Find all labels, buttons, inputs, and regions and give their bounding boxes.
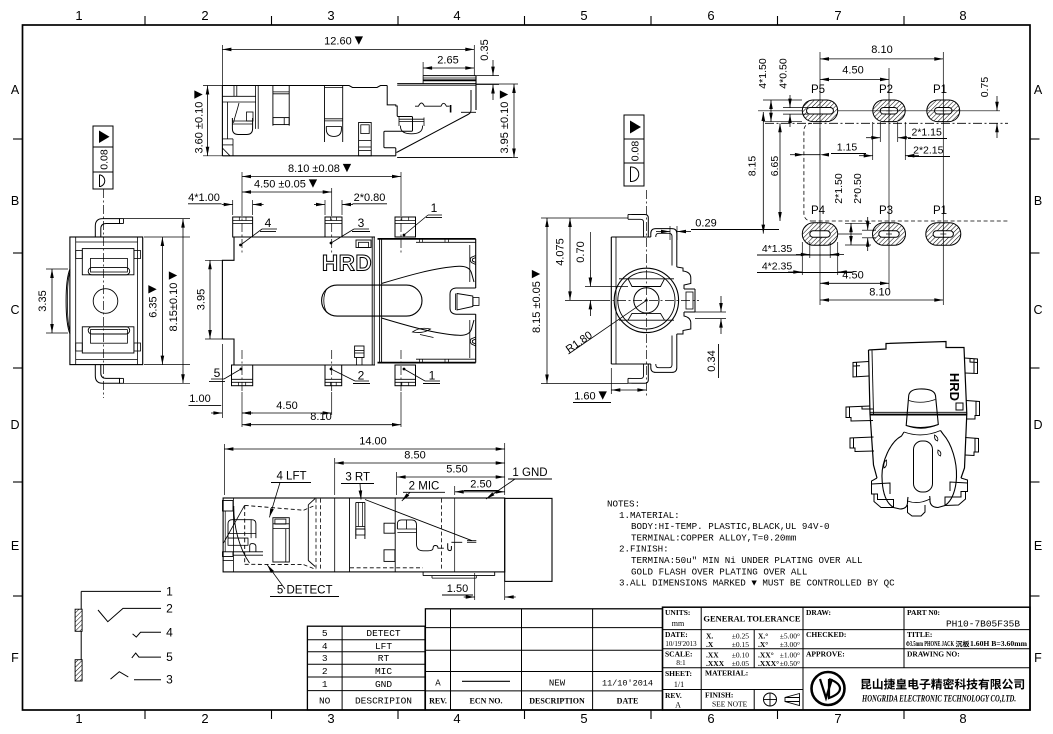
svg-text:4.50: 4.50 — [276, 400, 297, 412]
dim 2*1.15 / 2*2.15 — [879, 122, 881, 142]
svg-text:HRD: HRD — [322, 251, 372, 276]
svg-text:4.50: 4.50 — [842, 65, 863, 77]
svg-text:6: 6 — [707, 8, 714, 23]
top view spring arm — [415, 103, 450, 106]
svg-text:3: 3 — [166, 673, 173, 687]
svg-text:TERMINA:50u″ MIN Ni UNDER PLAT: TERMINA:50u″ MIN Ni UNDER PLATING OVER A… — [631, 555, 863, 566]
svg-text:E: E — [11, 539, 19, 553]
svg-text:FINISH:: FINISH: — [705, 691, 733, 700]
svg-text:A: A — [11, 83, 20, 97]
svg-text:3 RT: 3 RT — [345, 472, 370, 484]
svg-text:DATE:: DATE: — [665, 630, 688, 639]
svg-text:3.95 ±0.10▼: 3.95 ±0.10▼ — [496, 87, 512, 153]
3D bell — [882, 432, 908, 509]
revision table — [425, 609, 662, 710]
top view center slot terminal — [359, 123, 372, 156]
svg-text:0.70: 0.70 — [575, 241, 587, 262]
svg-text:8: 8 — [959, 711, 966, 726]
left view circle — [93, 289, 118, 314]
svg-text:2.65: 2.65 — [437, 55, 458, 67]
pad 4 — [233, 217, 253, 237]
svg-text:E: E — [1034, 539, 1042, 553]
svg-text:1: 1 — [166, 585, 173, 599]
svg-text:.X°: .X° — [758, 640, 768, 649]
svg-text:7: 7 — [834, 711, 841, 726]
svg-text:DESCRIPTION: DESCRIPTION — [529, 697, 585, 706]
svg-text:DETECT: DETECT — [366, 628, 401, 639]
svg-text:3.95: 3.95 — [196, 289, 208, 310]
svg-text:2: 2 — [358, 369, 365, 383]
svg-text:BODY:HI-TEMP. PLASTIC,BLACK,UL: BODY:HI-TEMP. PLASTIC,BLACK,UL 94V-0 — [631, 521, 829, 532]
svg-text:2 MIC: 2 MIC — [409, 480, 440, 492]
3D view body — [869, 342, 967, 479]
svg-text:8.10 ±0.08▼: 8.10 ±0.08▼ — [288, 160, 354, 176]
svg-text:5 DETECT: 5 DETECT — [277, 585, 333, 597]
top view diagonal cut — [397, 90, 472, 153]
bottom view leaf detail — [413, 328, 434, 337]
svg-text:8.15±0.10▼: 8.15±0.10▼ — [165, 268, 181, 331]
dimension 1.60 — [610, 368, 612, 394]
circle view circles — [614, 268, 678, 332]
finish symbols — [764, 693, 777, 706]
svg-text:3: 3 — [327, 711, 334, 726]
PCB pad P5 — [802, 100, 837, 122]
svg-text:14.00: 14.00 — [359, 436, 387, 448]
svg-text:0.29: 0.29 — [695, 218, 716, 230]
dimension 0.34 — [695, 311, 726, 313]
svg-text:4*1.35: 4*1.35 — [762, 243, 793, 255]
svg-text:8.15 ±0.05▼: 8.15 ±0.05▼ — [528, 267, 544, 333]
svg-text:7: 7 — [834, 8, 841, 23]
svg-text:4*0.50: 4*0.50 — [778, 58, 790, 89]
pad labels with leaders — [239, 244, 242, 247]
svg-text:NO: NO — [319, 696, 331, 707]
svg-text:3.ALL DIMENSIONS MARKED ▼ MUST: 3.ALL DIMENSIONS MARKED ▼ MUST BE CONTRO… — [619, 578, 895, 589]
svg-text:6: 6 — [707, 711, 714, 726]
svg-text:2*1.50: 2*1.50 — [833, 173, 845, 204]
side view J hook — [448, 543, 452, 550]
svg-text:0.75: 0.75 — [979, 77, 991, 98]
datum symbol 0.08 (circle view) — [624, 115, 644, 186]
svg-text:12.60▼: 12.60▼ — [324, 33, 366, 49]
bottom view small stack — [355, 346, 364, 358]
top view U terminal — [398, 117, 400, 127]
svg-text:F: F — [1034, 651, 1042, 665]
schematic: contact 3 — [111, 672, 129, 679]
svg-text:GND: GND — [375, 679, 392, 690]
dimension 3.35 — [46, 268, 68, 270]
svg-text:2*0.80: 2*0.80 — [354, 192, 386, 204]
dimension 3.60 — [203, 85, 222, 87]
dimension 4.50 (bottom) — [331, 392, 333, 415]
svg-text:NEW: NEW — [549, 679, 566, 689]
svg-text:HONGRIDA ELECTRONIC TECHNOLOGY: HONGRIDA ELECTRONIC TECHNOLOGY CO,LTD. — [861, 695, 1016, 705]
side view diagonal — [365, 500, 472, 541]
dim 5.50 — [396, 472, 398, 495]
side view terminal 4 (stepped contact) — [384, 523, 395, 533]
svg-text:1: 1 — [322, 679, 328, 690]
side view terminal 3 (slot) — [355, 503, 357, 540]
dim 8.10 bottom — [820, 299, 943, 301]
svg-text:LFT: LFT — [375, 641, 392, 652]
svg-text:REV.: REV. — [429, 697, 447, 706]
bottom view slot — [322, 285, 422, 316]
dimension 0.70 — [585, 286, 628, 288]
dim 14.00 — [223, 444, 225, 495]
PCB centerlines — [819, 52, 821, 305]
PCB pad P1 top — [927, 100, 960, 122]
svg-text:PART N0:: PART N0: — [907, 608, 940, 617]
dimension R1.80 — [569, 300, 647, 354]
side view body — [223, 498, 505, 572]
dim 1.50 — [474, 573, 476, 600]
svg-text:3.60 ±0.10▼: 3.60 ±0.10▼ — [191, 87, 207, 153]
dim 8.50 — [334, 458, 336, 495]
svg-text:P2: P2 — [879, 84, 893, 96]
svg-text:5.50: 5.50 — [446, 464, 467, 476]
svg-text:4*1.50: 4*1.50 — [757, 58, 769, 89]
svg-text:DRAWING NO:: DRAWING NO: — [907, 650, 960, 659]
svg-text:5: 5 — [166, 650, 173, 664]
bottom view small window — [356, 240, 371, 248]
svg-text:8.10: 8.10 — [310, 411, 331, 423]
svg-text:1: 1 — [431, 201, 438, 215]
svg-text:D: D — [1033, 418, 1042, 432]
svg-text:P4: P4 — [811, 205, 826, 217]
svg-text:±0.05: ±0.05 — [732, 659, 749, 668]
svg-text:1 GND: 1 GND — [512, 467, 547, 479]
svg-text:B: B — [1034, 194, 1042, 208]
svg-text:11/10'2014: 11/10'2014 — [602, 679, 653, 689]
svg-text:2: 2 — [201, 711, 208, 726]
pad 5 — [232, 365, 253, 386]
svg-text:mm: mm — [672, 619, 685, 628]
svg-text:DRAW:: DRAW: — [806, 608, 831, 617]
svg-text:P1: P1 — [933, 84, 947, 96]
3D left pins — [853, 362, 869, 378]
PCB pad P3 — [873, 223, 906, 246]
circle view latch — [684, 288, 695, 290]
dimension 2.65 — [422, 62, 424, 76]
svg-text:A: A — [1034, 83, 1043, 97]
svg-text:Φ3.5mm PHONE JACK: Φ3.5mm PHONE JACK — [906, 640, 954, 648]
svg-text:P1: P1 — [933, 205, 947, 217]
schematic: hatched contact block bottom — [75, 660, 82, 681]
svg-text:8.10: 8.10 — [869, 287, 890, 299]
circle view right profile — [677, 267, 691, 289]
dimension 8.10 (bottom) — [241, 392, 243, 427]
svg-text:1.15: 1.15 — [837, 142, 858, 154]
svg-text:B: B — [11, 194, 19, 208]
schematic: contact 5 — [132, 653, 161, 658]
left view side bracket — [66, 269, 70, 334]
svg-text:2: 2 — [322, 666, 328, 677]
3D center tube — [906, 389, 938, 428]
svg-text:8: 8 — [959, 8, 966, 23]
dim 4*1.35 / 4*2.35 — [809, 242, 811, 258]
svg-text:2: 2 — [201, 8, 208, 23]
pad 2 — [325, 365, 342, 386]
svg-text:ECN NO.: ECN NO. — [470, 697, 503, 706]
svg-text:3: 3 — [358, 216, 365, 230]
svg-text:0.08: 0.08 — [99, 149, 111, 170]
svg-text:SEE NOTE: SEE NOTE — [712, 700, 748, 709]
svg-text:P5: P5 — [811, 84, 825, 96]
svg-text:±0.15: ±0.15 — [732, 640, 749, 649]
svg-text:1: 1 — [75, 711, 82, 726]
svg-text:UNITS:: UNITS: — [665, 608, 690, 617]
bottom view corner hooks — [470, 256, 475, 265]
pad 1 bottom — [395, 365, 416, 386]
svg-text:A: A — [435, 679, 441, 689]
svg-text:8.50: 8.50 — [404, 450, 425, 462]
side view seams — [232, 498, 234, 572]
left view top contact — [76, 241, 138, 243]
top view outline — [222, 86, 387, 88]
svg-text:5: 5 — [580, 8, 587, 23]
svg-text:3: 3 — [322, 653, 328, 664]
svg-text:4: 4 — [166, 626, 173, 640]
svg-text:2*2.15: 2*2.15 — [913, 145, 944, 157]
circle view body — [610, 237, 612, 364]
datum symbol 0.08 (left) — [93, 126, 113, 189]
dimension 4.075 — [569, 218, 571, 300]
pad 3 — [325, 217, 342, 237]
left view bottom pin — [95, 365, 119, 384]
top view middle terminal — [272, 86, 274, 126]
PCB pad P4 — [802, 223, 837, 246]
svg-text:1.50: 1.50 — [447, 583, 468, 595]
svg-text:5: 5 — [322, 628, 328, 639]
svg-text:A: A — [675, 701, 681, 710]
svg-text:2: 2 — [166, 602, 173, 616]
top view left terminal — [233, 86, 235, 97]
svg-text:1.60H B=3.60mm: 1.60H B=3.60mm — [970, 640, 1027, 648]
svg-text:APPROVE:: APPROVE: — [806, 650, 845, 659]
side view terminal 2 — [273, 518, 289, 562]
svg-text:4*2.35: 4*2.35 — [762, 261, 793, 273]
left side view body — [70, 237, 143, 365]
svg-text:6.65: 6.65 — [769, 156, 781, 177]
bottom view right notch latch — [450, 288, 476, 314]
svg-text:P3: P3 — [879, 205, 893, 217]
top view right flange — [423, 75, 476, 77]
schematic: common line 1 — [80, 591, 82, 681]
svg-text:4.50: 4.50 — [842, 270, 863, 282]
svg-text:DESCRIPION: DESCRIPION — [355, 696, 412, 707]
svg-text:1.00: 1.00 — [189, 393, 210, 405]
svg-text:0.35: 0.35 — [479, 39, 491, 60]
svg-text:D: D — [10, 418, 19, 432]
dimension 12.60 — [221, 45, 223, 86]
svg-text:F: F — [11, 651, 19, 665]
svg-text:1.MATERIAL:: 1.MATERIAL: — [619, 510, 680, 521]
dimension 4.50 ±0.05 — [331, 188, 333, 207]
dim 4.50 bottom — [820, 282, 889, 284]
svg-text:GENERAL TOLERANCE: GENERAL TOLERANCE — [703, 614, 801, 624]
svg-text:C: C — [10, 303, 19, 317]
svg-text:8.10: 8.10 — [871, 44, 892, 56]
svg-text:4.50 ±0.05▼: 4.50 ±0.05▼ — [254, 176, 320, 192]
svg-text:6.35▼: 6.35▼ — [145, 282, 161, 318]
svg-text:4*1.00: 4*1.00 — [188, 192, 220, 204]
svg-text:8.15: 8.15 — [747, 156, 759, 177]
svg-text:2*1.15: 2*1.15 — [912, 127, 943, 139]
svg-text:PH10-7B05F35B: PH10-7B05F35B — [946, 619, 1020, 630]
svg-text:3: 3 — [327, 8, 334, 23]
dimension 3.95 — [476, 83, 518, 85]
PCB dashed outline — [804, 123, 812, 221]
pad 1 top — [395, 217, 416, 237]
svg-text:0.34: 0.34 — [706, 350, 718, 371]
svg-text:GOLD FLASH OVER PLATING OVER A: GOLD FLASH OVER PLATING OVER ALL — [631, 566, 807, 577]
circle view bottom pin — [632, 364, 649, 383]
svg-text:10/19'2013: 10/19'2013 — [665, 640, 697, 648]
circle view bottom fold — [651, 334, 677, 372]
svg-text:TERMINAL:COPPER ALLOY,T=0.20mm: TERMINAL:COPPER ALLOY,T=0.20mm — [631, 532, 797, 543]
schematic: contact 2 — [98, 608, 161, 621]
svg-text:MIC: MIC — [375, 666, 392, 677]
bottom view fork curves — [382, 266, 474, 283]
title block — [663, 607, 1031, 710]
svg-text:.XXX: .XXX — [706, 659, 725, 668]
dim 8.10 top — [820, 58, 943, 60]
side view left tabs — [223, 501, 234, 512]
dim 2.50 — [454, 486, 456, 495]
svg-text:1: 1 — [75, 8, 82, 23]
pin table — [307, 626, 425, 710]
PCB pad P2 — [873, 100, 905, 122]
svg-text:2*0.50: 2*0.50 — [852, 173, 864, 204]
svg-text:NOTES:: NOTES: — [607, 499, 640, 510]
svg-text:CHECKED:: CHECKED: — [806, 630, 846, 639]
circle view centerlines — [645, 190, 647, 396]
schematic: contact 4 — [133, 632, 161, 637]
dimension 8.10 ±0.08 — [241, 172, 243, 207]
svg-text:3.35: 3.35 — [37, 290, 49, 311]
svg-text:C: C — [1033, 303, 1042, 317]
company logo — [812, 672, 845, 705]
side view terminal 1 — [228, 520, 256, 538]
dim 4.50 top — [820, 78, 889, 80]
svg-text:4: 4 — [453, 711, 460, 726]
dimension 3.95 (left step) — [205, 259, 222, 261]
left view centerline — [103, 189, 105, 398]
left view bottom contact — [76, 359, 138, 361]
3D feet — [872, 478, 894, 508]
svg-text:4: 4 — [322, 641, 328, 652]
svg-text:8:1: 8:1 — [676, 658, 686, 667]
svg-text:±0.50°: ±0.50° — [780, 659, 800, 668]
svg-text:5: 5 — [214, 366, 221, 380]
svg-text:.XXX°: .XXX° — [758, 659, 779, 668]
top view third terminal — [324, 86, 326, 143]
svg-text:4 LFT: 4 LFT — [276, 471, 306, 483]
svg-text:2.50: 2.50 — [470, 479, 491, 491]
circle view chords — [619, 278, 674, 280]
svg-text:5: 5 — [580, 711, 587, 726]
svg-text:4: 4 — [265, 216, 272, 230]
side view left diagonal & arc — [224, 506, 245, 544]
side view dashed hidden lines — [315, 499, 317, 570]
circle view top fold — [651, 229, 677, 267]
svg-text:1/1: 1/1 — [674, 680, 684, 689]
svg-text:REV.: REV. — [665, 691, 682, 700]
svg-text:±3.00°: ±3.00° — [780, 640, 800, 649]
svg-text:MATERIAL:: MATERIAL: — [705, 669, 748, 678]
svg-text:DATE: DATE — [617, 697, 639, 706]
dimension 8.15 ±0.10 — [123, 218, 190, 220]
dimension 0.35 — [476, 75, 499, 77]
svg-text:SHEET:: SHEET: — [665, 669, 692, 678]
svg-text:RT: RT — [378, 653, 390, 664]
side view bottom plate — [422, 572, 424, 576]
company chinese name — [861, 679, 871, 690]
left view top pin — [95, 219, 119, 237]
svg-text:0.08: 0.08 — [630, 141, 642, 162]
PCB pad P1 bottom — [926, 223, 961, 246]
svg-text:4: 4 — [453, 8, 460, 23]
svg-text:4.075: 4.075 — [555, 238, 567, 266]
svg-text:1: 1 — [429, 369, 436, 383]
svg-text:TITLE:: TITLE: — [907, 630, 932, 639]
svg-text:1.60▼: 1.60▼ — [574, 388, 610, 404]
svg-text:.X: .X — [706, 640, 714, 649]
side view barrel — [505, 498, 552, 581]
svg-text:HRD: HRD — [947, 373, 962, 401]
dimension 6.35 — [144, 236, 190, 238]
schematic: hatched contact block top — [75, 609, 82, 631]
3D right pins — [965, 358, 978, 374]
dimension 8.15 ±0.05 — [541, 217, 628, 219]
svg-text:2.FINISH:: 2.FINISH: — [619, 544, 669, 555]
circle view top pin — [632, 215, 649, 238]
bottom view outline — [222, 237, 234, 365]
